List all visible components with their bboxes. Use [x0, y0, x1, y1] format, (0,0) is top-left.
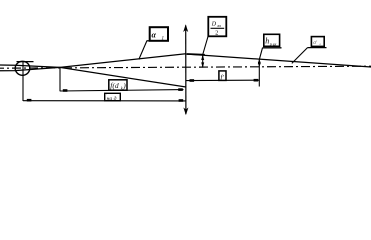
lens L1 (thin lens vertical double arrow): [183, 24, 188, 115]
lower ray crossing to lens: [60, 67, 186, 87]
dimension tick on ray (D/2 top): [187, 53, 205, 56]
upper ray crossing to lens: [60, 54, 186, 68]
dimension line B (lower, long): [23, 100, 186, 102]
svg-text:1: 1: [162, 36, 165, 41]
line B left square tick: [27, 99, 32, 102]
svg-text:на д: на д: [107, 95, 117, 102]
incoming upper ray: [0, 65, 60, 67]
label box f': [219, 71, 226, 81]
svg-text:вх: вх: [218, 23, 222, 28]
label box h_r.vx: [263, 34, 282, 48]
optical axis (dash-dot): [0, 66, 371, 68]
h box shelf: [263, 47, 282, 49]
refracted ray after lens: [186, 54, 371, 67]
label box alpha1: [147, 27, 169, 41]
svg-text:D: D: [211, 21, 217, 27]
svg-text:): ): [122, 81, 126, 90]
h vertical dimension / extension line: [258, 59, 261, 87]
line A right square tick: [178, 88, 183, 91]
h leader: [260, 48, 263, 59]
f' left square tick: [190, 79, 195, 82]
extension line V1 from pupil: [22, 62, 24, 101]
alpha1 leader: [139, 41, 147, 60]
svg-text:р вх: р вх: [269, 42, 277, 47]
label box Dvx/2: [208, 17, 226, 37]
sigma box shelf: [308, 47, 327, 49]
label box f(dk): [109, 80, 127, 91]
incoming lower ray: [0, 67, 60, 70]
Dvx/2 leader: [203, 37, 208, 55]
svg-text:f(d: f(d: [110, 81, 119, 90]
sigma leader: [292, 48, 308, 64]
svg-text:h: h: [265, 37, 269, 46]
dimension line A (upper, from crossing): [60, 90, 184, 91]
svg-text:2: 2: [215, 31, 218, 37]
line B right square tick: [179, 99, 184, 102]
eye pupil circle: [15, 61, 30, 75]
D/2 vertical dimension arrow: [201, 55, 204, 68]
label box sigma: [308, 37, 327, 48]
extension line V2 from crossing: [59, 67, 61, 91]
svg-text:α: α: [152, 30, 157, 39]
label box "na d": [105, 92, 121, 102]
f' right square tick: [254, 79, 259, 82]
f' dimension line: [186, 79, 259, 81]
line A left square tick: [63, 89, 68, 92]
top chord line over pupil: [17, 61, 34, 63]
